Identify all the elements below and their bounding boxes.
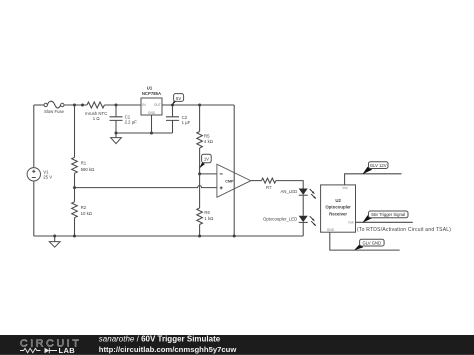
node junction ground rail U1 GND — [150, 132, 153, 135]
svg-text:GLV 12V: GLV 12V — [370, 163, 387, 168]
resistor Inrush NTC 1 ohm — [85, 102, 107, 121]
node junction C1 top — [115, 104, 118, 107]
op-amp U2 optocoupler receiver — [321, 185, 356, 232]
wire R1 top stub — [74, 105, 76, 157]
wire ground rail under U1 — [116, 132, 173, 134]
svg-text:R6: R6 — [204, 210, 210, 215]
wire R5 top stub — [199, 105, 201, 132]
svg-text:56v Trigger Signal: 56v Trigger Signal — [371, 212, 405, 217]
wire comparator power vertical — [233, 105, 235, 236]
wire V1 bottom vertical — [33, 181, 35, 236]
wire bottom rail — [34, 235, 303, 237]
node flag 56v Trigger Signal — [362, 211, 408, 223]
svg-text:Out: Out — [348, 220, 353, 224]
node flag GLV GND — [354, 239, 384, 250]
node wire endpoint — [81, 104, 84, 107]
svg-text:1 µF: 1 µF — [182, 120, 191, 125]
wire R2 bottom stub — [74, 218, 76, 236]
wire U2 Out stub — [356, 221, 413, 223]
op-amp CMP comparator — [217, 164, 251, 197]
wire R6 top stub — [199, 174, 201, 208]
svg-text:R7: R7 — [266, 185, 272, 190]
svg-text:http://circuitlab.com/cnmsghh5: http://circuitlab.com/cnmsghh5y7cuw — [99, 345, 237, 354]
svg-text:Vcc: Vcc — [342, 186, 348, 190]
footer logo CIRCUIT — [20, 338, 81, 350]
svg-text:GLV GND: GLV GND — [363, 240, 382, 245]
wire C1 top stub — [115, 105, 117, 117]
wire R5 bottom stub — [199, 148, 201, 174]
voltage source V1 — [27, 168, 52, 181]
resistor R1 590k — [72, 157, 95, 173]
capacitor C2 1uF — [166, 115, 191, 125]
wire minus input — [200, 173, 217, 175]
svg-text:sanarothe / 60V Trigger Simula: sanarothe / 60V Trigger Simulate — [99, 335, 221, 344]
ground symbol bottom — [49, 236, 60, 247]
wire U2 GND stub — [330, 232, 400, 250]
node junction CMP bottom — [233, 235, 236, 238]
svg-text:R5: R5 — [204, 133, 210, 138]
svg-text:GND: GND — [327, 228, 335, 232]
wire NTC to U1 IN — [104, 104, 141, 106]
svg-text:1V: 1V — [204, 156, 209, 161]
footer title text — [99, 335, 237, 354]
svg-text:OUT: OUT — [154, 103, 161, 107]
svg-text:R1: R1 — [81, 161, 87, 166]
resistor R2 10k — [72, 202, 93, 218]
fuse F1 Slow Fuse — [44, 101, 65, 114]
svg-text:5V: 5V — [176, 96, 181, 101]
node junction R1 R2 divider — [73, 186, 76, 189]
node flag GLV 12V — [362, 162, 388, 175]
ground symbol under C1 — [111, 133, 122, 144]
wire fuse to NTC — [64, 104, 87, 106]
svg-text:U2: U2 — [335, 198, 341, 203]
wire C2 bottom stub — [172, 120, 174, 133]
wire CMP output — [251, 180, 262, 182]
diode Optocoupler_LED — [263, 216, 316, 227]
wire C2 top stub — [172, 105, 174, 117]
svg-text:R2: R2 — [81, 205, 87, 210]
svg-text:Optocoupler: Optocoupler — [325, 205, 351, 210]
op-amp U1 regulator NCP785A — [141, 86, 162, 115]
capacitor C1 2.2uF — [110, 114, 138, 124]
svg-text:2.2 µF: 2.2 µF — [125, 119, 138, 124]
svg-text:Receiver: Receiver — [329, 211, 347, 216]
footer bar — [0, 335, 474, 355]
node junction minus input — [198, 172, 201, 175]
wire R7 to LED chain — [276, 181, 303, 189]
node junction R5 top — [198, 104, 201, 107]
node flag 5V — [172, 94, 184, 106]
node junction C2 top — [171, 104, 174, 107]
wire top rail V1 to fuse — [34, 104, 44, 106]
wire LED chain to bottom rail — [302, 222, 304, 236]
wire U2 Vcc stub — [345, 174, 402, 185]
node junction ground rail C1 — [115, 132, 118, 135]
footer logo resistor zigzag and diode — [20, 348, 57, 353]
svg-text:590 kΩ: 590 kΩ — [81, 167, 96, 172]
resistor R7 — [262, 178, 276, 190]
svg-text:LAB: LAB — [59, 346, 76, 355]
wire R2 top stub — [74, 188, 76, 202]
svg-text:1 kΩ: 1 kΩ — [204, 216, 214, 221]
svg-text:4 kΩ: 4 kΩ — [204, 139, 214, 144]
svg-text:V1: V1 — [43, 169, 49, 174]
resistor R6 1k — [197, 208, 214, 225]
wire U1 GND stub — [151, 115, 153, 133]
node junction ground bottom — [53, 235, 56, 238]
wire plus input from divider — [75, 186, 217, 188]
svg-text:10 kΩ: 10 kΩ — [81, 211, 93, 216]
node junction R2 bottom — [73, 235, 76, 238]
node flag 1V — [199, 154, 211, 168]
annotation To RTDS note — [357, 227, 451, 233]
footer logo LAB — [59, 346, 76, 355]
resistor R5 4k — [197, 132, 214, 149]
svg-text:U1: U1 — [147, 86, 153, 91]
wire R6 bottom stub — [199, 225, 201, 237]
svg-text:NCP785A: NCP785A — [142, 91, 161, 96]
svg-text:CMP: CMP — [225, 180, 234, 184]
svg-text:AN_LED: AN_LED — [280, 189, 297, 194]
wire C1 bottom stub — [115, 120, 117, 133]
svg-text:25 V: 25 V — [43, 175, 52, 180]
diode AN_LED — [280, 189, 316, 200]
wire R1 bottom stub — [74, 173, 76, 187]
wire V1 top vertical — [33, 105, 35, 168]
svg-text:1 Ω: 1 Ω — [93, 116, 101, 121]
node junction R6 bottom — [198, 235, 201, 238]
wire between LEDs — [302, 195, 304, 216]
node junction fuse-R1 — [73, 104, 76, 107]
svg-text:Optocoupler_LED: Optocoupler_LED — [263, 216, 297, 221]
svg-text:Slow Fuse: Slow Fuse — [44, 109, 65, 114]
svg-text:(To RTDS/Activation Circuit an: (To RTDS/Activation Circuit and TSAL) — [357, 227, 451, 233]
wire U1 OUT rail — [162, 104, 234, 106]
svg-text:GND: GND — [148, 111, 156, 115]
